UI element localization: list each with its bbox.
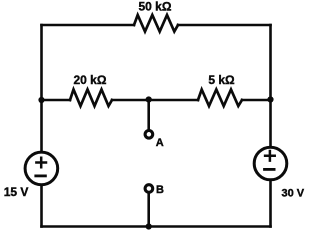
label node B xyxy=(156,184,164,196)
junction left middle node xyxy=(38,97,44,103)
svg-text:5 kΩ: 5 kΩ xyxy=(208,73,235,87)
label 30 V xyxy=(282,188,305,200)
svg-text:A: A xyxy=(156,137,164,149)
terminal A open circle xyxy=(145,131,153,139)
svg-text:20 kΩ: 20 kΩ xyxy=(74,73,107,87)
voltage source V2 minus sign xyxy=(265,168,275,171)
wire middle center segment xyxy=(112,99,198,102)
wire right vertical lower xyxy=(269,181,272,226)
wire right vertical upper xyxy=(269,25,272,146)
label 20 kOhm xyxy=(74,73,107,87)
wire node A stub xyxy=(147,100,150,131)
resistor 20 kOhm zigzag xyxy=(70,90,112,107)
svg-text:B: B xyxy=(156,184,164,196)
wire node B stub xyxy=(147,193,150,227)
svg-text:50 kΩ: 50 kΩ xyxy=(139,0,172,14)
svg-text:30 V: 30 V xyxy=(282,188,305,200)
label 50 kOhm xyxy=(139,0,172,14)
voltage source V1 plus sign xyxy=(36,158,46,168)
wire left vertical lower xyxy=(40,186,43,226)
wire middle left segment xyxy=(42,99,71,102)
label node A xyxy=(156,137,164,149)
resistor 50 kOhm zigzag xyxy=(134,15,178,32)
voltage source V1 circle xyxy=(25,152,58,185)
label 5 kOhm xyxy=(208,73,235,87)
wire top-right segment xyxy=(178,24,271,27)
voltage source V1 minus sign xyxy=(36,174,46,177)
junction right middle node xyxy=(267,96,273,102)
wire top-left segment xyxy=(42,24,135,27)
wire left vertical upper xyxy=(40,25,43,151)
terminal B open circle xyxy=(145,185,153,193)
label 15 V xyxy=(4,185,29,199)
junction node A on middle wire xyxy=(146,96,152,102)
voltage source V2 plus sign xyxy=(265,151,275,161)
wire middle right segment xyxy=(242,99,271,102)
junction node B on bottom wire xyxy=(146,223,152,229)
wire bottom xyxy=(42,225,271,228)
svg-text:15 V: 15 V xyxy=(4,185,29,199)
voltage source V2 circle xyxy=(254,147,287,180)
resistor 5 kOhm zigzag xyxy=(198,90,242,107)
